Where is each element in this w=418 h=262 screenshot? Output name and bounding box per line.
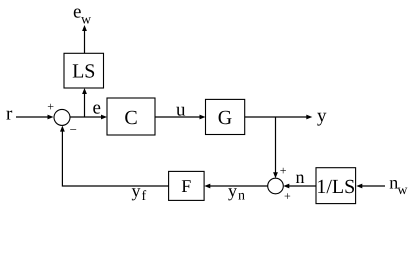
wire n_w to 1/LS <box>361 185 386 187</box>
svg-text:f: f <box>142 189 147 204</box>
wire r to summing junction S1 <box>16 116 49 118</box>
wire S2 to block F <box>209 185 268 187</box>
svg-text:w: w <box>397 183 408 198</box>
svg-text:n: n <box>296 167 305 187</box>
svg-text:C: C <box>124 107 137 129</box>
svg-text:+: + <box>280 164 287 178</box>
svg-text:y: y <box>228 181 237 201</box>
wire LS to ew output <box>84 30 86 54</box>
svg-text:u: u <box>176 100 186 121</box>
block F <box>169 171 205 200</box>
node e (branch point) wire up to LS <box>84 93 86 118</box>
block LS <box>64 53 104 88</box>
svg-text:n: n <box>238 189 245 204</box>
svg-text:w: w <box>81 13 92 28</box>
svg-text:F: F <box>181 176 191 196</box>
svg-text:G: G <box>218 107 232 129</box>
svg-text:+: + <box>47 100 54 114</box>
wire F feedback to S1 <box>62 130 168 186</box>
svg-text:+: + <box>284 189 291 203</box>
svg-text:y: y <box>317 106 327 127</box>
block C <box>107 98 155 135</box>
svg-text:e: e <box>93 97 101 118</box>
wire branch down to summing junction S2 <box>275 117 277 174</box>
summing junction S2 <box>268 178 284 194</box>
block G <box>206 99 245 134</box>
wire 1/LS to S2 <box>288 185 317 187</box>
block 1/LS <box>316 168 356 204</box>
wire G to y output <box>245 116 308 118</box>
svg-text:−: − <box>70 122 77 137</box>
svg-text:r: r <box>6 104 13 125</box>
wire S1 to block C <box>70 116 103 118</box>
svg-text:1/LS: 1/LS <box>316 176 355 198</box>
svg-text:LS: LS <box>72 61 95 83</box>
svg-text:y: y <box>132 181 141 201</box>
summing junction S1 <box>54 109 70 125</box>
wire C to G <box>155 116 201 118</box>
